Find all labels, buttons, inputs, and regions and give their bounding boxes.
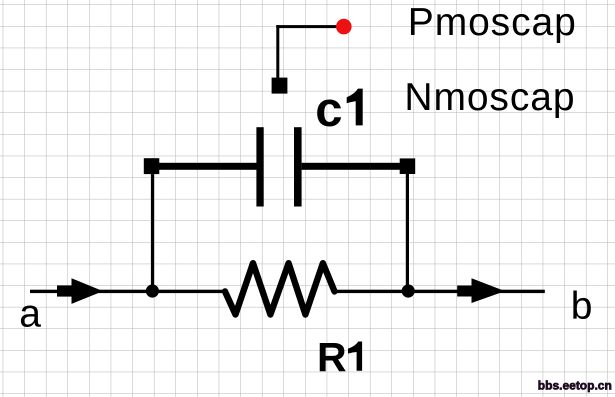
wire top vertical bbox=[276, 25, 279, 78]
wire right vertical drop bbox=[406, 174, 409, 291]
pin square top (bulk pin) bbox=[272, 78, 288, 94]
arrow right head bbox=[472, 278, 506, 303]
arrow left shaft bbox=[57, 285, 72, 296]
wire left vertical drop bbox=[151, 174, 154, 291]
capacitor C1 right lead bbox=[302, 163, 408, 170]
svg-text:R: R bbox=[317, 334, 347, 380]
wire main horizontal resistor to b bbox=[334, 290, 545, 293]
capacitor C1 left plate bbox=[256, 127, 263, 206]
capacitor C1 right terminal square bbox=[400, 158, 416, 174]
junction node left bbox=[146, 284, 159, 297]
resistor R1 bbox=[225, 263, 335, 314]
capacitor C1 right plate bbox=[294, 127, 302, 206]
svg-text:b: b bbox=[571, 285, 593, 328]
wire main horizontal a to resistor bbox=[30, 290, 227, 293]
svg-text:c: c bbox=[315, 83, 342, 137]
svg-text:Nmoscap: Nmoscap bbox=[404, 76, 575, 119]
arrow left head bbox=[72, 278, 104, 304]
svg-text:Pmoscap: Pmoscap bbox=[408, 1, 577, 44]
arrow right shaft bbox=[457, 286, 473, 297]
capacitor C1 left terminal square bbox=[144, 158, 160, 174]
svg-text:bbs.eetop.cn: bbs.eetop.cn bbox=[538, 379, 612, 393]
junction node right bbox=[402, 284, 415, 297]
capacitor C1 left lead bbox=[151, 163, 257, 170]
node Pmoscap terminal (red dot) bbox=[336, 19, 352, 35]
wire top horizontal bbox=[276, 25, 339, 28]
svg-text:a: a bbox=[19, 293, 41, 336]
